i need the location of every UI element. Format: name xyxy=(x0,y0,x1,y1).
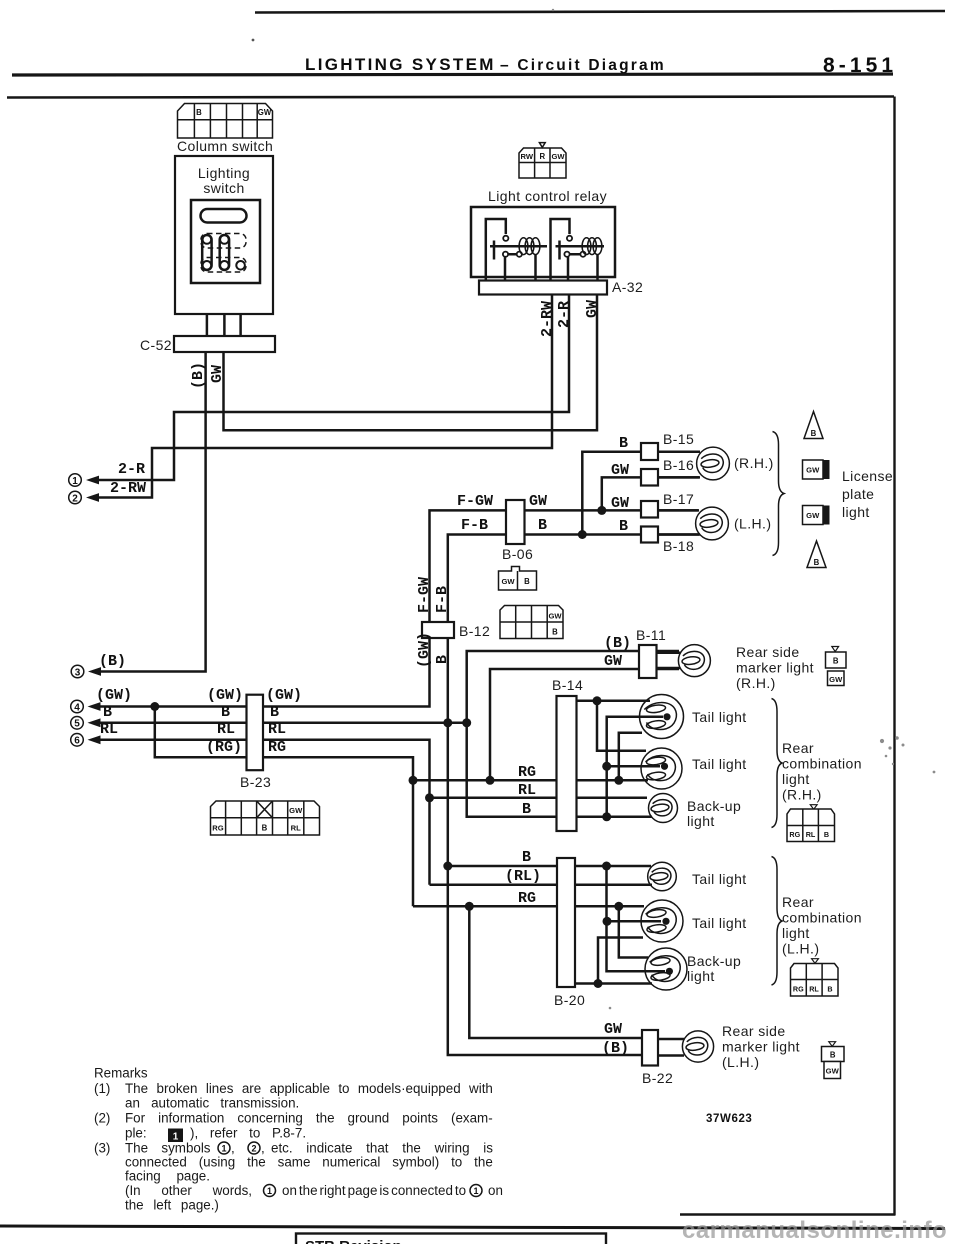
label B wire LH xyxy=(522,849,531,866)
label Tail light RH2 xyxy=(692,756,747,772)
svg-text:GW: GW xyxy=(289,806,303,815)
license GW connector icon 2 xyxy=(803,506,830,525)
svg-text:etc. indicate that the wiring: etc. indicate that the wiring is xyxy=(271,1141,493,1156)
rear side marker bulb RH xyxy=(678,645,710,677)
wire tail bulb 1 lower loop to RG xyxy=(619,733,642,781)
svg-text:STB Revision: STB Revision xyxy=(305,1238,402,1244)
svg-text:(R.H.): (R.H.) xyxy=(734,455,774,471)
svg-text:RL: RL xyxy=(806,830,816,839)
wire RG tail feed line (RH cluster) xyxy=(413,779,648,782)
svg-text:A-32: A-32 xyxy=(612,279,643,295)
label Back-up light RH xyxy=(687,798,741,829)
wire RG line LH cluster xyxy=(413,905,644,908)
light control relay box xyxy=(471,207,615,277)
connector icon 2x4 grid near B-12 xyxy=(500,606,563,639)
label F-GW left of B-06 xyxy=(457,493,493,510)
connector icon GW|B near B-06 xyxy=(499,567,537,591)
diagram frame bottom xyxy=(680,1213,896,1215)
svg-text:F-GW: F-GW xyxy=(416,577,433,613)
label Rear combination light LH xyxy=(782,894,862,957)
license warning triangle top xyxy=(804,412,823,439)
lighting switch inner box xyxy=(191,200,260,283)
connector B-12 xyxy=(422,622,454,638)
svg-text:RL: RL xyxy=(809,984,819,993)
svg-text:combination: combination xyxy=(782,910,862,926)
rear combination RH brace xyxy=(772,699,783,828)
svg-text:GW: GW xyxy=(258,108,272,117)
label GW right of B-06 xyxy=(529,493,547,510)
node 1 arrow xyxy=(69,474,99,487)
svg-text:B: B xyxy=(552,628,558,637)
label License plate light xyxy=(842,468,893,520)
svg-text:B: B xyxy=(619,518,628,535)
rotated label (GW) below B-12 xyxy=(416,632,433,668)
svg-text:B: B xyxy=(830,1051,836,1060)
svg-text:Tail light: Tail light xyxy=(692,709,747,725)
svg-text:The symbols: The symbols xyxy=(125,1141,211,1156)
label C-52 xyxy=(140,337,172,353)
svg-text:GW: GW xyxy=(604,1021,622,1038)
svg-text:GW: GW xyxy=(829,675,843,684)
relay 1 contact post xyxy=(490,241,547,260)
svg-text:6: 6 xyxy=(74,736,80,747)
label (B) wire B-22 xyxy=(602,1040,629,1057)
remarks heading xyxy=(94,1066,148,1081)
tail light bulb LH 1 xyxy=(648,862,677,891)
label B wire B-18 xyxy=(619,518,628,535)
svg-text:2-RW: 2-RW xyxy=(539,301,556,337)
svg-text:B: B xyxy=(524,577,530,586)
svg-text:(B): (B) xyxy=(602,1040,629,1057)
svg-text:light: light xyxy=(687,813,715,829)
license plate bulb LH xyxy=(696,507,729,540)
svg-text:License: License xyxy=(842,468,893,484)
svg-text:ple:: ple: xyxy=(125,1126,147,1141)
label B right of B-06 xyxy=(538,517,547,534)
rear side marker bulb LH xyxy=(682,1031,713,1062)
svg-text:(B): (B) xyxy=(190,362,207,389)
svg-text:(2): (2) xyxy=(94,1111,110,1126)
column switch connector xyxy=(178,104,273,139)
wire (B) to B-11 xyxy=(467,651,679,723)
relay 2 contacts xyxy=(564,236,585,257)
svg-text:C-52: C-52 xyxy=(140,337,172,353)
wire B-20 stub to back-up bulb xyxy=(575,982,652,985)
label B-17 xyxy=(663,491,694,507)
svg-text:GW: GW xyxy=(806,511,820,520)
svg-text:37W623: 37W623 xyxy=(706,1113,752,1125)
svg-text:RG: RG xyxy=(518,764,536,781)
wire tail bulb 2 centre xyxy=(607,765,660,768)
label (GW) at node 4 xyxy=(96,687,132,704)
svg-text:B: B xyxy=(270,704,279,721)
svg-text:the left page.): the left page.) xyxy=(125,1198,219,1213)
rear combination LH connector icon xyxy=(791,959,839,996)
svg-text:B-06: B-06 xyxy=(502,546,533,562)
svg-text:B: B xyxy=(811,429,817,438)
svg-text:RL: RL xyxy=(518,782,536,799)
wire B-15 to license bulb RH xyxy=(658,450,700,453)
label B-22 xyxy=(642,1070,673,1086)
rotated label B below B-12 xyxy=(434,655,451,664)
node 2 arrow xyxy=(69,491,99,504)
diagram frame top xyxy=(7,97,894,98)
wire B-14 stub to tail bulb 1 xyxy=(577,700,651,703)
wire LH tail bulb 2 lower loop xyxy=(598,938,643,984)
wire B-16 to license bulb RH xyxy=(658,476,700,479)
relay 2 coil xyxy=(582,238,602,255)
connector C-52 xyxy=(174,336,275,352)
remark 3 xyxy=(94,1141,503,1213)
scan speckles xyxy=(552,9,936,1010)
svg-text:R: R xyxy=(539,152,545,161)
svg-text:on the right page is connected: on the right page is connected to xyxy=(282,1183,466,1198)
lighting switch outer box xyxy=(175,156,273,314)
svg-text:B: B xyxy=(619,435,628,452)
svg-text:B: B xyxy=(814,558,820,567)
relay 2 contact links xyxy=(568,254,580,281)
svg-text:1: 1 xyxy=(473,1186,478,1196)
B-11 marker connector icon GW xyxy=(828,671,845,686)
connector B-23 xyxy=(247,695,264,771)
relay 1 hook xyxy=(486,219,506,282)
svg-text:The broken lines are applicabl: The broken lines are applicable to model… xyxy=(125,1081,493,1096)
svg-text:an automatic transmission.: an automatic transmission. xyxy=(125,1096,299,1111)
rear combination RH connector icon xyxy=(787,805,835,842)
connector B-14 xyxy=(557,696,577,831)
wire LH tail bulb 2 centre stub xyxy=(607,920,661,923)
wire GW to B-16 xyxy=(602,477,699,510)
svg-text:GW: GW xyxy=(611,495,629,512)
lighting switch contact bridge 2 xyxy=(220,235,229,270)
svg-text:), refer to P.8-7.: ), refer to P.8-7. xyxy=(190,1126,306,1141)
label RL wire RH xyxy=(518,782,536,799)
rotated label 2-RW xyxy=(539,301,556,337)
tail light bulb RH 2 xyxy=(641,748,682,789)
svg-text:Back-up: Back-up xyxy=(687,953,741,969)
license plate bulb RH xyxy=(697,447,730,480)
node 3 arrow xyxy=(71,665,101,678)
svg-text:GW: GW xyxy=(501,577,515,586)
connector B-16 xyxy=(641,469,658,486)
B-11 marker connector icon B xyxy=(826,647,847,669)
svg-text:2: 2 xyxy=(251,1143,256,1153)
svg-text:B: B xyxy=(262,823,268,832)
svg-text:5: 5 xyxy=(74,719,80,730)
wire B branch to rear combination RH ground xyxy=(467,723,652,817)
svg-text:GW: GW xyxy=(604,653,622,670)
svg-text:,: , xyxy=(231,1141,235,1156)
label GW wire B-11 xyxy=(604,653,622,670)
B-22 marker connector icon GW xyxy=(824,1062,841,1079)
circled digit 1a in remark 3 line 4 xyxy=(264,1185,276,1197)
svg-text:GW: GW xyxy=(529,493,547,510)
wire F-B / B through B-06 to B-18 xyxy=(448,535,699,623)
connector B-20 xyxy=(557,858,575,987)
label Rear side marker light LH xyxy=(722,1023,800,1070)
svg-text:(B): (B) xyxy=(604,635,631,652)
label Rear combination light RH xyxy=(782,740,862,803)
svg-text:1: 1 xyxy=(221,1143,226,1153)
label (L.H.) license xyxy=(734,516,771,532)
svg-text:2-RW: 2-RW xyxy=(110,480,146,497)
label Column switch xyxy=(177,138,273,154)
connector B-15 xyxy=(641,443,658,460)
label RG wire LH xyxy=(518,890,536,907)
svg-text:Rear: Rear xyxy=(782,740,814,756)
svg-text:marker light: marker light xyxy=(736,660,814,676)
svg-text:B-15: B-15 xyxy=(663,431,694,447)
svg-text:B: B xyxy=(833,657,839,666)
svg-text:GW: GW xyxy=(826,1067,840,1076)
label B-18 xyxy=(663,538,694,554)
circled digit 2 in remark 3 xyxy=(248,1142,260,1154)
wire: lighting switch pins to C-52 xyxy=(207,270,241,337)
wire RL back-up feed (RH cluster) xyxy=(430,797,648,800)
label (RL) wire LH xyxy=(505,868,541,885)
wire B to B-15 xyxy=(582,452,698,535)
label GW wire B-22 xyxy=(604,1021,622,1038)
label Tail light LH1 xyxy=(692,871,747,887)
ground symbol in remark 2 xyxy=(168,1129,183,1143)
svg-text:GW: GW xyxy=(611,462,629,479)
label 2-R at node 1 xyxy=(118,461,145,478)
svg-text:(GW): (GW) xyxy=(96,687,132,704)
svg-text:B-17: B-17 xyxy=(663,491,694,507)
connector B-22 xyxy=(642,1030,658,1066)
rear combination LH brace xyxy=(772,857,783,986)
rotated label GW under C-52 xyxy=(209,365,226,383)
label B-15 xyxy=(663,431,694,447)
label RG wire RH xyxy=(518,764,536,781)
label Back-up light LH xyxy=(687,953,741,984)
license warning triangle bottom xyxy=(807,541,826,568)
label (R.H.) license xyxy=(734,455,774,471)
wire (B) from C-52 down to node 3 xyxy=(99,352,206,672)
svg-text:(R.H.): (R.H.) xyxy=(736,675,776,691)
label Lighting switch xyxy=(198,165,250,196)
STB Revision box xyxy=(296,1234,606,1244)
tail light bulb LH 2 xyxy=(641,900,683,942)
relay 2 coil leg xyxy=(596,255,599,282)
lighting switch knob (stadium) xyxy=(201,209,247,223)
label GW wire B-17 xyxy=(611,495,629,512)
svg-text:marker light: marker light xyxy=(722,1039,800,1055)
rotated label (B) under C-52 xyxy=(190,362,207,389)
wire LH tail bulb 2 centre to ground xyxy=(607,866,666,971)
label 2-RW at node 2 xyxy=(110,480,146,497)
svg-text:Rear side: Rear side xyxy=(736,644,800,660)
svg-text:RG: RG xyxy=(268,739,286,756)
svg-text:,: , xyxy=(261,1141,265,1156)
lighting switch dashed contact row 2 xyxy=(201,258,246,273)
svg-text:F-B: F-B xyxy=(434,586,451,613)
svg-text:GW: GW xyxy=(548,612,562,621)
node 4 arrow xyxy=(71,700,101,713)
remark 2 xyxy=(94,1111,493,1141)
svg-text:(B): (B) xyxy=(99,653,126,670)
lighting switch pins xyxy=(203,235,245,269)
svg-text:1: 1 xyxy=(267,1186,272,1196)
page number 8-151 xyxy=(823,54,893,77)
svg-text:B-23: B-23 xyxy=(240,774,271,790)
wire 2-RW bus L3 to node 2 xyxy=(99,295,552,498)
light control relay connector icon RW R GW xyxy=(519,143,566,178)
svg-text:GW: GW xyxy=(806,466,820,475)
wire 2-R bus L1 to node 1 xyxy=(99,295,569,481)
label B-23 xyxy=(240,774,271,790)
svg-text:(3): (3) xyxy=(94,1141,110,1156)
svg-text:B-16: B-16 xyxy=(663,457,694,473)
watermark carmanualsonline.info xyxy=(682,1217,947,1244)
label B-16 xyxy=(663,457,694,473)
lighting switch contact bridge 1 xyxy=(202,235,211,270)
svg-text:light: light xyxy=(782,925,810,941)
svg-text:Lighting: Lighting xyxy=(198,165,250,181)
svg-text:(R.H.): (R.H.) xyxy=(782,787,822,803)
relay 1 contacts xyxy=(503,236,522,257)
wire tail bulb 1 centre to ground xyxy=(607,717,663,817)
svg-text:RL: RL xyxy=(217,721,235,738)
svg-text:on: on xyxy=(488,1183,503,1198)
wire B ground trunk from B-12 to B-22 xyxy=(448,638,642,1055)
svg-text:For information concerning the: For information concerning the ground po… xyxy=(125,1111,493,1126)
wire B-18 to license bulb LH xyxy=(658,533,700,536)
svg-text:Remarks: Remarks xyxy=(94,1066,148,1081)
svg-text:RG: RG xyxy=(789,830,800,839)
svg-text:B-11: B-11 xyxy=(636,627,666,643)
svg-text:(RG): (RG) xyxy=(206,739,242,756)
back-up light bulb RH xyxy=(649,794,678,823)
label Rear side marker light RH xyxy=(736,644,814,691)
license GW connector icon 1 xyxy=(803,460,830,479)
header underline xyxy=(12,74,893,75)
label GW wire B-16 xyxy=(611,462,629,479)
connector B-18 xyxy=(641,527,658,543)
wire F-GW / GW through B-06 to B-17 xyxy=(430,510,699,622)
wire tail bulb 2 top feed xyxy=(597,701,646,751)
svg-text:GW: GW xyxy=(551,152,565,161)
svg-text:(GW): (GW) xyxy=(416,632,433,668)
license group brace xyxy=(773,432,785,556)
svg-text:Back-up: Back-up xyxy=(687,798,741,814)
B-22 marker connector icon B xyxy=(822,1042,845,1062)
svg-text:RL: RL xyxy=(291,823,301,832)
svg-text:4: 4 xyxy=(74,702,80,713)
wire (GW) from B-12 to node 4 xyxy=(97,638,430,707)
svg-text:RG: RG xyxy=(793,984,804,993)
rotated label 2-R xyxy=(556,301,573,328)
wire B line LH cluster xyxy=(448,865,651,868)
svg-text:Rear: Rear xyxy=(782,894,814,910)
connector A-32 xyxy=(479,281,607,295)
page bottom rule xyxy=(0,1226,945,1229)
node 6 arrow xyxy=(71,734,101,747)
svg-text:2-R: 2-R xyxy=(118,461,145,478)
svg-text:(GW): (GW) xyxy=(207,687,243,704)
label B at node 5 xyxy=(103,704,112,721)
svg-text:RW: RW xyxy=(521,152,534,161)
svg-text:B: B xyxy=(103,704,112,721)
svg-text:light: light xyxy=(687,968,715,984)
wire (RG) branch from node-4 line through B-23 xyxy=(155,707,413,907)
labels left of B-23 xyxy=(206,687,243,756)
relay 2 hook xyxy=(551,219,570,282)
svg-text:B-14: B-14 xyxy=(552,677,583,693)
rotated label GW under A-32 xyxy=(584,300,601,318)
connector icon 2x7 grid below B-23 xyxy=(211,801,320,835)
svg-text:light: light xyxy=(842,504,870,520)
label Light control relay xyxy=(488,188,607,204)
wire GW branch to B-22 xyxy=(469,906,642,1038)
label Tail light RH1 xyxy=(692,709,747,725)
svg-text:carmanualsonline.info: carmanualsonline.info xyxy=(682,1217,947,1244)
svg-text:2: 2 xyxy=(72,493,78,504)
diagram frame right border xyxy=(893,97,895,1216)
svg-text:3: 3 xyxy=(75,667,81,678)
svg-text:1: 1 xyxy=(72,476,78,487)
label Tail light LH2 xyxy=(692,915,747,931)
wire LH back-up top feed xyxy=(619,906,648,957)
svg-text:GW: GW xyxy=(584,300,601,318)
svg-text:2-R: 2-R xyxy=(556,301,573,328)
label B-12 xyxy=(459,623,490,639)
svg-text:Tail light: Tail light xyxy=(692,915,747,931)
svg-text:B-12: B-12 xyxy=(459,623,490,639)
label F-B left of B-06 xyxy=(461,517,488,534)
label B-14 xyxy=(552,677,583,693)
wire (RL) line LH cluster xyxy=(430,884,653,887)
wire B bus node 5 xyxy=(97,722,467,725)
svg-text:F-B: F-B xyxy=(461,517,488,534)
svg-text:B-18: B-18 xyxy=(663,538,694,554)
tail light bulb RH 1 xyxy=(640,695,684,739)
relay 2 contact post xyxy=(556,241,605,260)
top rule xyxy=(252,11,945,41)
connector B-11 xyxy=(639,645,657,678)
rotated label F-GW xyxy=(416,577,433,613)
svg-text:B: B xyxy=(221,704,230,721)
svg-text:connected (using the same nume: connected (using the same numerical symb… xyxy=(125,1155,493,1170)
relay 1 contact links xyxy=(505,254,517,281)
svg-text:LIGHTING SYSTEM: LIGHTING SYSTEM xyxy=(305,55,494,74)
svg-text:(In other words,: (In other words, xyxy=(125,1183,252,1198)
svg-text:– Circuit Diagram: – Circuit Diagram xyxy=(500,57,664,74)
label A-32 xyxy=(612,279,643,295)
circled digit 1b in remark 3 line 4 xyxy=(470,1185,482,1197)
circled digit 1 in remark 3 xyxy=(218,1142,230,1154)
svg-text:B: B xyxy=(538,517,547,534)
svg-text:B-20: B-20 xyxy=(554,992,585,1008)
wire B-22 to rear side marker bulb LH xyxy=(658,1039,684,1056)
labels right of B-23 xyxy=(266,687,302,756)
svg-text:switch: switch xyxy=(203,180,244,196)
svg-text:B: B xyxy=(827,984,832,993)
svg-text:facing page.: facing page. xyxy=(125,1169,210,1184)
svg-text:Column switch: Column switch xyxy=(177,138,273,154)
svg-text:Light control relay: Light control relay xyxy=(488,188,607,204)
svg-text:B: B xyxy=(196,108,202,117)
svg-text:(L.H.): (L.H.) xyxy=(722,1054,759,1070)
svg-text:(L.H.): (L.H.) xyxy=(734,516,771,532)
svg-text:RG: RG xyxy=(212,823,223,832)
label B wire B-15 xyxy=(619,435,628,452)
label B wire RH xyxy=(522,801,531,818)
svg-text:B: B xyxy=(434,655,451,664)
wire GW from C-52 to light control relay (L2) xyxy=(224,295,598,431)
svg-text:Tail light: Tail light xyxy=(692,871,747,887)
svg-text:(GW): (GW) xyxy=(266,687,302,704)
